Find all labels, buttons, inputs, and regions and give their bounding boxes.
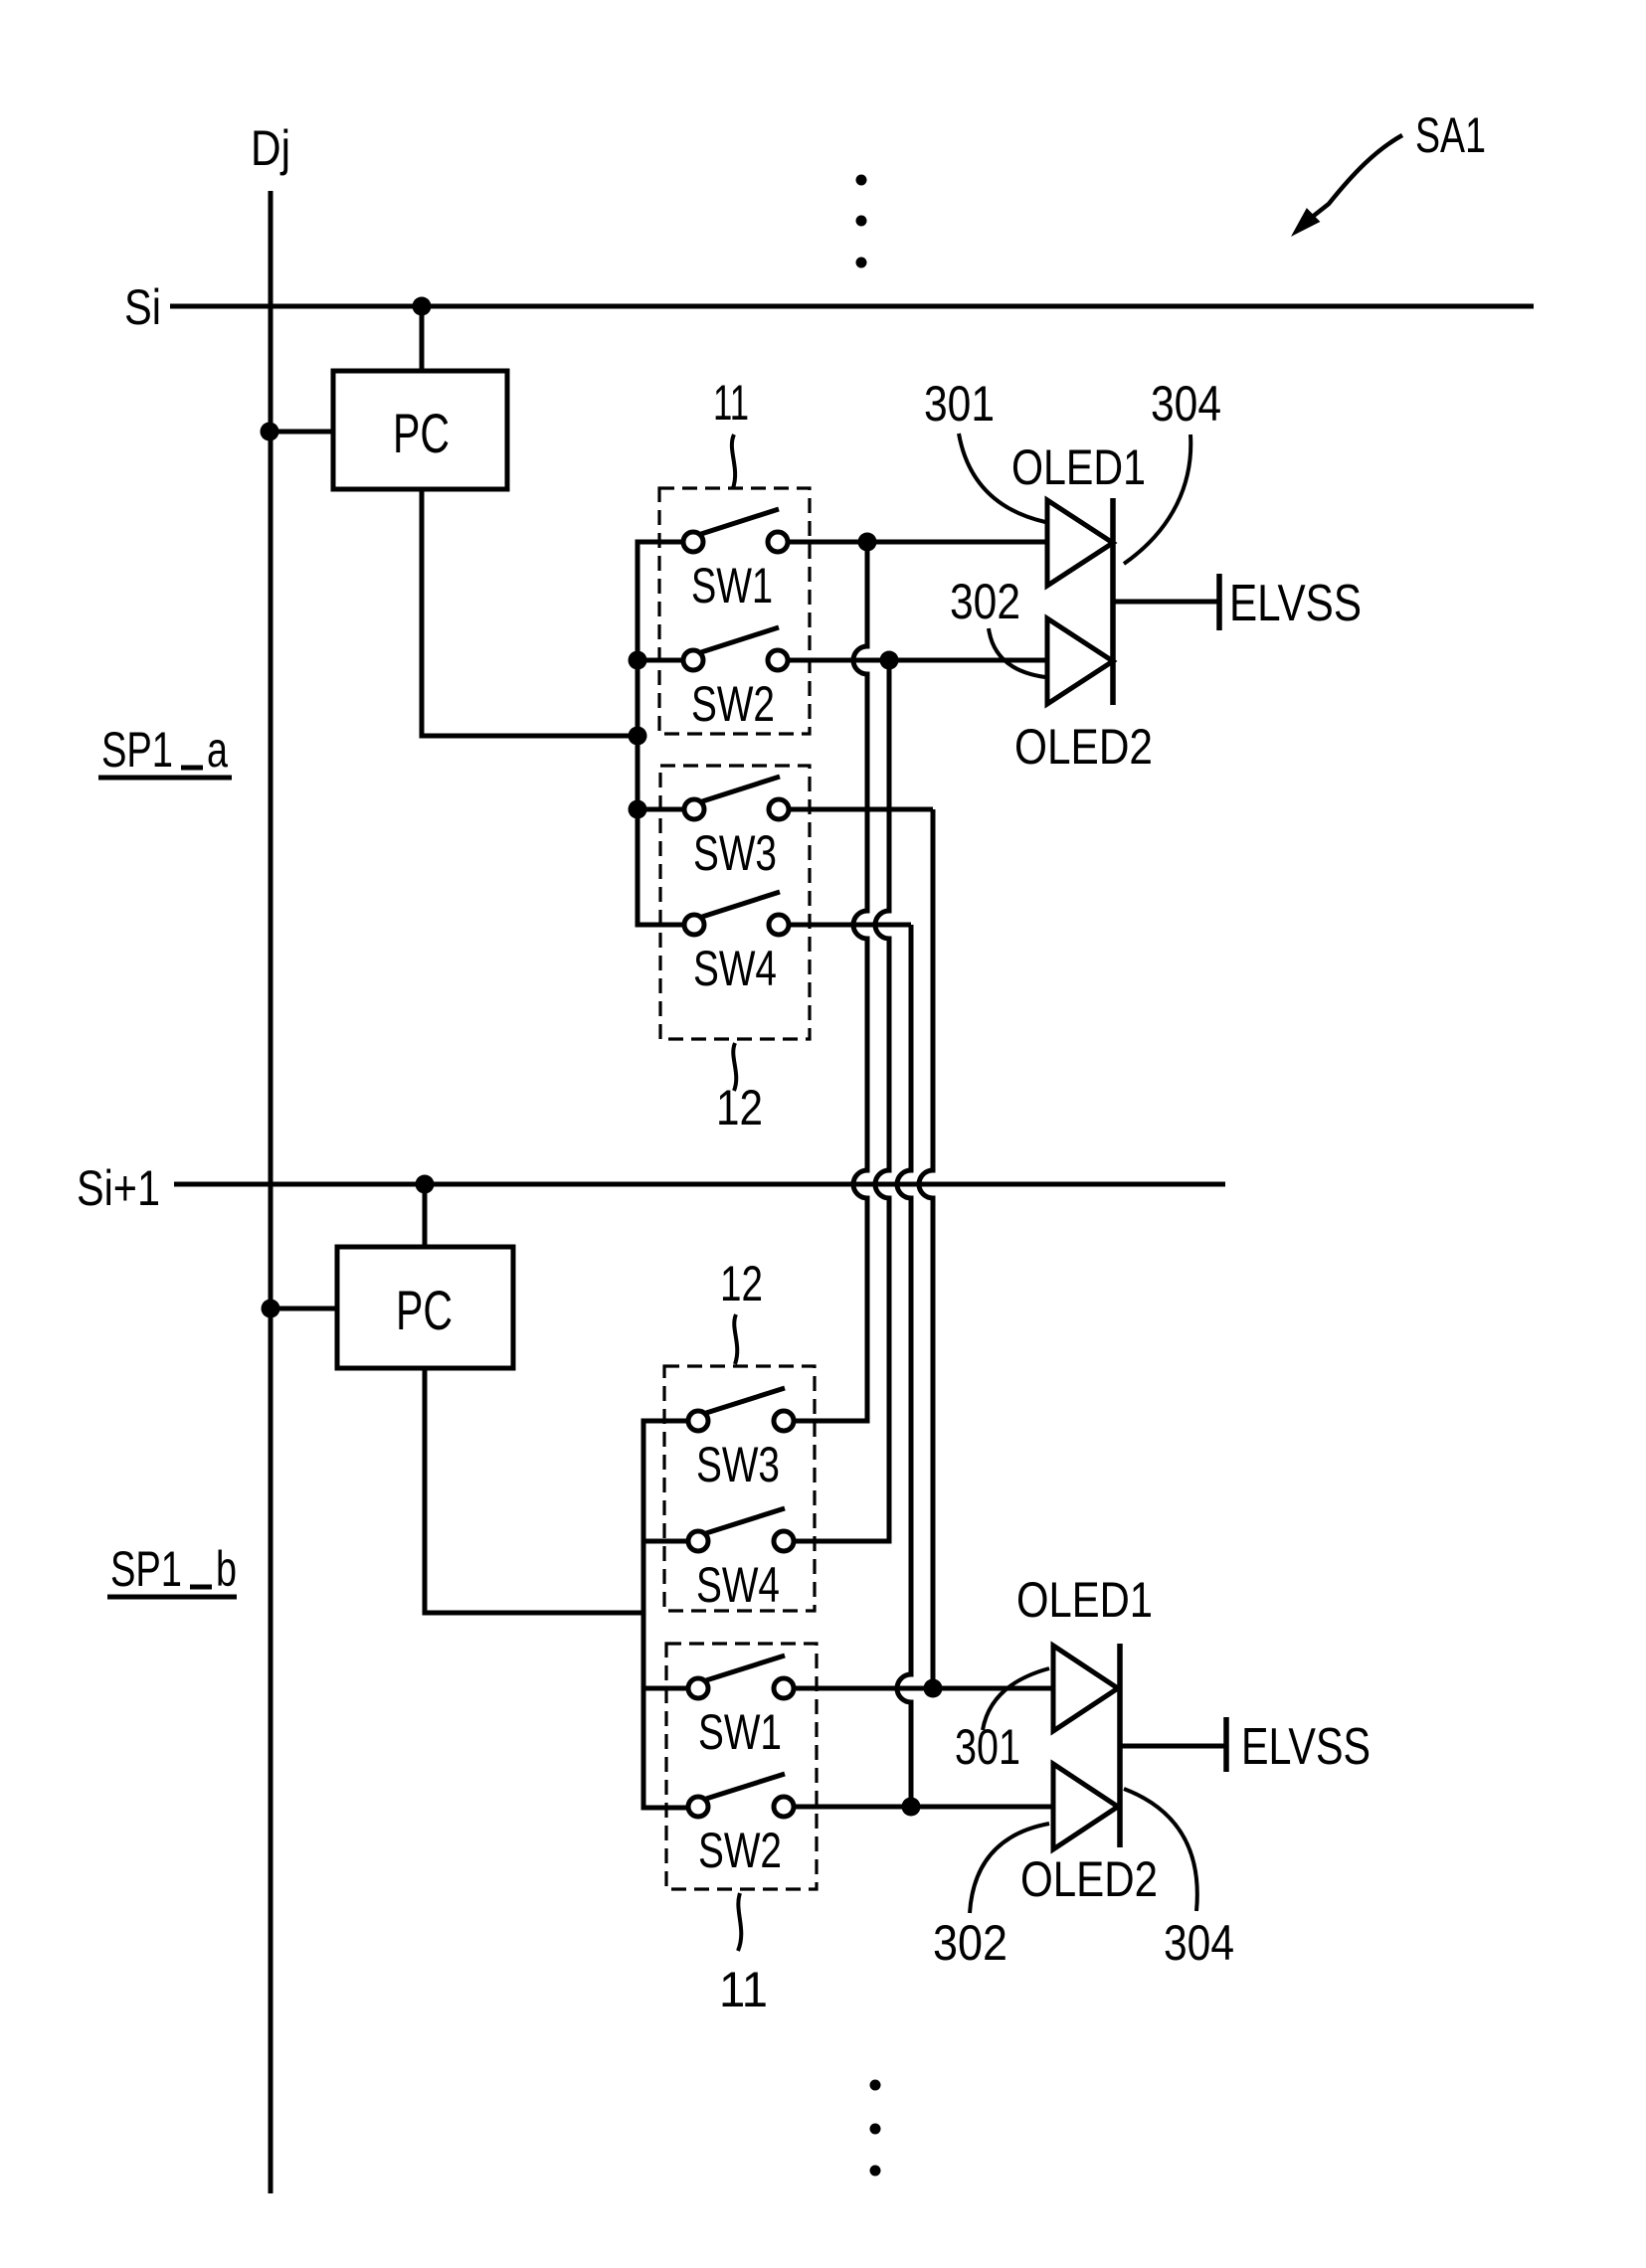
OLED1 (SP1_a) anode triangle — [1047, 500, 1113, 586]
switch SW2 (SP1_a) — [683, 627, 788, 732]
svg-text:SP1: SP1 — [110, 1541, 182, 1597]
junction bus / PC1 wire — [629, 727, 647, 746]
svg-text:302: 302 — [950, 574, 1020, 629]
svg-text:b: b — [216, 1541, 237, 1597]
junction wire C / OLED2 node (SP1_b) — [902, 1798, 921, 1817]
svg-text:301: 301 — [924, 376, 995, 432]
label 11 (upper) — [713, 375, 749, 488]
svg-text:OLED2: OLED2 — [1020, 1851, 1158, 1907]
junction Dj / PC1 — [261, 423, 279, 441]
switch SW3 (SP1_a) — [684, 777, 789, 881]
switch SW1 (SP1_a) — [683, 509, 788, 613]
svg-text:OLED1: OLED1 — [1011, 439, 1146, 495]
ELVSS terminal bar (SP1_b) — [1223, 1717, 1229, 1772]
junction node A (SW1/OLED1) — [858, 533, 877, 552]
svg-text:SW2: SW2 — [698, 1823, 782, 1878]
wire Si+1 to PC2 — [423, 1184, 428, 1247]
ref 302 (SP1_b) — [933, 1824, 1049, 1971]
pixel circuit PC (SP1_a) — [333, 371, 507, 489]
wire Dj to PC2 — [271, 1307, 337, 1311]
OLED2 (SP1_b) anode triangle — [1053, 1764, 1118, 1849]
svg-text:SW4: SW4 — [693, 941, 777, 996]
common cathode bar (SP1_b) — [1117, 1644, 1123, 1847]
leader arrow to SA1 — [1294, 135, 1402, 234]
wire SW2 to OLED2 anode (SP1_a) — [788, 658, 1047, 663]
svg-text:PC: PC — [396, 1279, 453, 1341]
wire SW2 to OLED2 anode (SP1_b) — [794, 1805, 1053, 1810]
continuation dots top — [856, 175, 867, 268]
wire cathode to ELVSS (SP1_b) — [1120, 1744, 1224, 1749]
ref 302 (SP1_a) — [950, 574, 1045, 677]
junction wire D / OLED1 node (SP1_b) — [924, 1679, 943, 1698]
switch group 11 dashed box (SP1_b) — [666, 1644, 817, 1889]
wire Dj to PC1 — [270, 430, 333, 435]
ref 304 (SP1_a) — [1124, 376, 1221, 564]
svg-text:OLED2: OLED2 — [1014, 719, 1153, 775]
switch SW1 (SP1_b) — [688, 1656, 794, 1760]
OLED1 (SP1_b) anode triangle — [1053, 1646, 1118, 1731]
wire: left switch bus SP1_a — [638, 542, 684, 925]
svg-text:OLED1: OLED1 — [1016, 1572, 1153, 1628]
wire: data line Dj — [269, 191, 274, 2193]
continuation dots bottom — [870, 2080, 881, 2177]
wire Si to PC1 — [420, 306, 425, 371]
junction node B (SW2/OLED2) — [880, 651, 899, 670]
label 11 (lower) — [719, 1893, 768, 2017]
svg-text:Si: Si — [124, 279, 161, 335]
label 12 (upper) — [716, 1043, 763, 1135]
cell label SP1_a — [98, 722, 232, 778]
svg-text:PC: PC — [393, 402, 450, 464]
vertical wire D (SW3 of SP1_a to OLED1 node of SP1_b) with hop — [919, 809, 933, 1688]
wire PC1 output to switch bus — [422, 489, 638, 736]
wire cathode to ELVSS (SP1_a) — [1113, 600, 1217, 605]
ref 301 (SP1_a) — [924, 376, 1045, 522]
label 12 (lower) — [720, 1256, 763, 1364]
wire: scan line Si — [170, 304, 1534, 309]
pixel circuit PC (SP1_b) — [337, 1247, 513, 1368]
svg-text:SW3: SW3 — [693, 825, 777, 881]
wire SW1 to OLED1 anode (SP1_b) — [794, 1686, 1053, 1691]
junction Dj / PC2 — [262, 1300, 280, 1318]
svg-text:304: 304 — [1151, 376, 1221, 432]
svg-text:SA1: SA1 — [1415, 107, 1486, 163]
switch group 11 dashed box (SP1_a) — [659, 488, 810, 734]
svg-text:12: 12 — [716, 1080, 763, 1135]
junction bus / SW3 — [629, 800, 647, 819]
switch SW3 (SP1_b) — [688, 1388, 794, 1492]
vertical wire A (node A to SW3 of SP1_b) with hops — [794, 542, 867, 1421]
svg-text:SW1: SW1 — [698, 1704, 782, 1760]
svg-text:SW4: SW4 — [696, 1557, 780, 1613]
svg-text:a: a — [207, 722, 228, 778]
svg-text:SW2: SW2 — [691, 676, 775, 732]
svg-text:301: 301 — [955, 1719, 1020, 1775]
vertical wire B (node B to SW4 of SP1_b) with hops — [794, 660, 889, 1541]
ref 304 (SP1_b) — [1124, 1789, 1234, 1971]
OLED2 (SP1_a) anode triangle — [1047, 618, 1113, 704]
switch group 12 dashed box (SP1_b) — [664, 1366, 815, 1611]
switch SW2 (SP1_b) — [688, 1774, 794, 1878]
switch group 12 dashed box (SP1_a) — [660, 766, 810, 1039]
wire PC2 output to switch bus — [425, 1368, 643, 1613]
svg-text:11: 11 — [713, 375, 749, 431]
switch SW4 (SP1_b) — [688, 1508, 794, 1613]
wire: scan line Si+1 — [174, 1182, 1225, 1187]
svg-text:Dj: Dj — [251, 120, 290, 176]
wire: left switch bus SP1_b — [643, 1421, 688, 1808]
svg-text:302: 302 — [933, 1915, 1007, 1971]
svg-text:ELVSS: ELVSS — [1229, 575, 1362, 632]
svg-text:Si+1: Si+1 — [77, 1160, 160, 1216]
wire SW4 output (SP1_a) — [789, 923, 911, 928]
svg-text:304: 304 — [1164, 1915, 1234, 1971]
svg-text:11: 11 — [719, 1962, 768, 2017]
ELVSS terminal bar (SP1_a) — [1216, 574, 1222, 630]
svg-text:SW1: SW1 — [691, 558, 773, 613]
ref 301 (SP1_b) — [955, 1668, 1049, 1775]
svg-text:SW3: SW3 — [696, 1437, 780, 1492]
cell label SP1_b — [107, 1541, 237, 1597]
common cathode bar (SP1_a) — [1110, 498, 1116, 705]
junction Si+1 / PC2 — [416, 1175, 435, 1194]
switch SW4 (SP1_a) — [684, 892, 789, 996]
junction Si / PC1 — [413, 297, 432, 316]
svg-text:ELVSS: ELVSS — [1241, 1718, 1371, 1776]
junction bus / SW2 — [629, 651, 647, 670]
wire SW1 to OLED1 anode (SP1_a) — [788, 540, 1047, 545]
wire SW3 output (SP1_a) — [789, 807, 933, 812]
svg-text:SP1: SP1 — [101, 722, 173, 778]
svg-text:12: 12 — [720, 1256, 763, 1311]
vertical wire C (SW4 of SP1_a to OLED2 node of SP1_b) with hops — [897, 925, 911, 1807]
